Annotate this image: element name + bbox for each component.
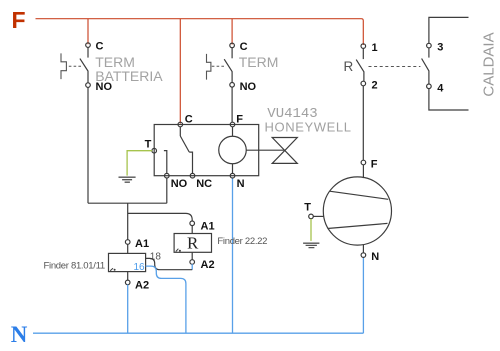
- svg-text:16: 16: [134, 262, 146, 273]
- wire: blue neutral bus: [33, 332, 363, 334]
- dashed actuator link: [212, 65, 226, 67]
- relay coil tick mark: [176, 249, 179, 252]
- svg-text:HONEYWELL: HONEYWELL: [265, 119, 352, 134]
- internal NC lead: [189, 152, 192, 174]
- svg-text:18: 18: [150, 251, 162, 262]
- terminal NO: [86, 83, 91, 88]
- timer body box: [109, 253, 146, 271]
- switch blade: [80, 59, 88, 83]
- relay R Finder 22.22: [174, 221, 267, 271]
- terminal NO: [165, 173, 170, 178]
- terminal F: [230, 122, 235, 127]
- internal switch blade C-NC: [180, 136, 189, 152]
- svg-text:A1: A1: [201, 221, 215, 233]
- wire: blue timer contact 16 to neutral bus: [146, 266, 186, 333]
- switch blade: [356, 60, 364, 82]
- pump internal chords: [327, 191, 388, 228]
- zone valve U1 VU4143 HONEYWELL: [145, 106, 352, 190]
- svg-text:A2: A2: [201, 259, 215, 271]
- wire: bracket to boiler (bottom): [429, 89, 469, 111]
- terminal F: [361, 160, 366, 165]
- svg-text:R: R: [344, 59, 354, 74]
- timer coil tick mark: [110, 268, 113, 271]
- svg-text:N: N: [237, 178, 245, 190]
- svg-text:NO: NO: [171, 178, 188, 190]
- terminal A1: [190, 221, 195, 226]
- terminal N: [230, 173, 235, 178]
- wire: rail down to timer A1: [127, 203, 129, 240]
- svg-text:C: C: [185, 114, 193, 126]
- wire: blue drop valve terminal N to neutral bus: [232, 178, 234, 333]
- svg-text:R: R: [187, 234, 199, 253]
- svg-text:Finder 22.22: Finder 22.22: [217, 236, 267, 247]
- terminal 4: [427, 84, 432, 89]
- terminal T: [152, 148, 157, 153]
- wire: red drop from bus to valve terminal C: [179, 19, 181, 124]
- thermostat actuator step symbol: [207, 54, 211, 80]
- svg-text:NO: NO: [240, 81, 257, 93]
- thermostat actuator step symbol: [61, 53, 66, 79]
- terminal NO: [230, 83, 235, 88]
- caldaia contact (pins 3-4): [422, 17, 498, 110]
- internal valve motor circle: [219, 136, 247, 164]
- terminal N: [361, 253, 366, 258]
- circulation pump M1: [303, 158, 391, 263]
- svg-text:N: N: [371, 251, 379, 263]
- terminal 2: [361, 81, 366, 86]
- ground (valve earth): [119, 177, 136, 182]
- wire: red phase bus with corner down to contact R terminal 1: [36, 19, 364, 45]
- terminal A1: [125, 240, 130, 245]
- lead body to A2: [127, 272, 129, 281]
- terminal A2: [125, 280, 130, 285]
- lead T to pump body: [313, 215, 324, 217]
- internal NO lead with hook: [164, 151, 167, 174]
- ground (pump earth): [303, 243, 319, 247]
- svg-text:1: 1: [372, 42, 378, 54]
- svg-text:Finder 81.01/11: Finder 81.01/11: [44, 260, 105, 271]
- wire: blue stub below A2: [191, 264, 193, 270]
- lead A1 to body: [127, 244, 129, 253]
- svg-text:F: F: [371, 158, 378, 170]
- timer K1 Finder 81.01/11: [44, 238, 162, 333]
- lead coil to A2: [191, 252, 193, 260]
- switch blade: [422, 59, 429, 85]
- switch blade: [224, 59, 232, 82]
- svg-text:F: F: [236, 114, 243, 126]
- wire: blue A2 down to neutral bus: [127, 285, 129, 334]
- wire: terminal 2 down to pump F: [362, 86, 364, 161]
- thermostat switch S1 TERM BATTERIA: [61, 41, 163, 204]
- svg-text:T: T: [145, 139, 152, 151]
- wire: junction rail joining TB NO and valve NO: [88, 178, 167, 203]
- fixed lead from C: [87, 47, 89, 57]
- svg-text:A1: A1: [135, 238, 149, 250]
- wire: blue drop pump terminal N to neutral bus: [362, 257, 364, 333]
- svg-text:3: 3: [437, 42, 443, 54]
- terminal T: [309, 214, 314, 219]
- svg-text:2: 2: [372, 80, 378, 92]
- wire: NO down to junction rail: [87, 87, 89, 203]
- terminal C: [178, 122, 183, 127]
- relay coil box: [174, 234, 211, 253]
- lead A1 to coil: [191, 225, 193, 233]
- svg-text:C: C: [96, 41, 104, 53]
- wire: red drop from bus to TERM terminal C: [231, 19, 233, 45]
- wire: timer contact 18 to relay A2: [146, 258, 193, 269]
- wire: red drop from bus to TERM BATTERIA terminal C: [87, 19, 89, 45]
- svg-text:T: T: [304, 201, 311, 213]
- relay contact R (pins 1-2): [344, 42, 421, 160]
- svg-text:F: F: [12, 7, 26, 33]
- dashed mechanical link to caldaia contact: [369, 66, 421, 68]
- svg-text:4: 4: [437, 82, 444, 94]
- thermostat switch S2 TERM: [207, 41, 279, 122]
- terminal C: [86, 43, 91, 48]
- svg-text:CALDAIA: CALDAIA: [481, 32, 498, 96]
- valve body box: [154, 125, 259, 176]
- internal leads to valve motor: [233, 127, 285, 174]
- wire: bracket to boiler (top): [429, 17, 469, 43]
- fixed lead from C: [231, 48, 233, 59]
- fixed lead from 3: [428, 48, 430, 58]
- svg-text:N: N: [11, 322, 28, 347]
- fixed lead from 1: [362, 48, 364, 59]
- wire: NO down to valve terminal F: [231, 87, 233, 122]
- wire: branch to relay R A1: [128, 213, 193, 221]
- valve bowtie symbol: [272, 138, 297, 164]
- pump body circle: [323, 177, 391, 245]
- svg-text:A2: A2: [135, 280, 149, 292]
- svg-text:C: C: [240, 41, 248, 53]
- svg-text:BATTERIA: BATTERIA: [95, 68, 163, 84]
- dashed actuator link: [69, 65, 83, 67]
- wire: green earth wire from valve T: [127, 151, 152, 176]
- lead pump body to N: [362, 244, 364, 253]
- terminal 1: [361, 44, 366, 49]
- wire: green earth wire from pump T: [310, 219, 312, 241]
- svg-text:NC: NC: [196, 178, 212, 190]
- terminal 3: [427, 43, 432, 48]
- svg-text:TERM: TERM: [239, 54, 279, 70]
- lead F to pump body: [362, 165, 364, 179]
- terminal NC: [190, 173, 195, 178]
- internal lead from C: [179, 127, 181, 136]
- terminal C: [230, 43, 235, 48]
- terminal A2: [190, 260, 195, 265]
